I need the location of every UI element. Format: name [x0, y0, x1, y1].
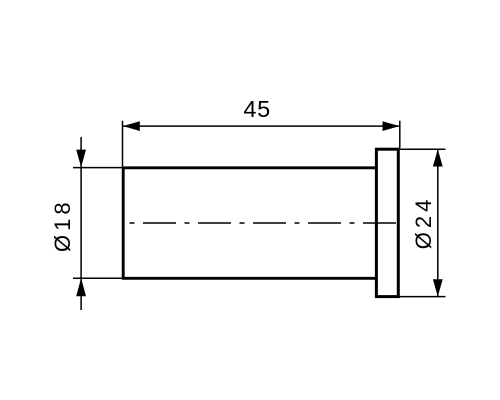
extension line O18 top [73, 167, 123, 169]
extension line 45 left [122, 121, 124, 167]
dimension line 45 [123, 125, 400, 127]
arrowhead O18 top (points down) [76, 150, 86, 168]
flange outline [376, 149, 398, 296]
extension line 45 right [399, 121, 401, 148]
centerline [130, 222, 399, 224]
extension line O24 bottom [399, 296, 446, 298]
extension line O18 bottom [73, 277, 123, 279]
arrowhead 45 left [123, 121, 140, 131]
arrowhead O24 top (points up) [433, 149, 443, 166]
dimension line O18 [80, 137, 82, 310]
svg-text:Ø18: Ø18 [50, 198, 75, 252]
body outline (pin shaft) [123, 168, 377, 278]
svg-text:45: 45 [243, 96, 271, 122]
svg-text:Ø24: Ø24 [411, 196, 436, 250]
extension line O24 top [399, 148, 446, 150]
arrowhead O24 bottom (points down) [433, 279, 443, 296]
arrowhead 45 right [383, 121, 400, 131]
arrowhead O18 bottom (points up) [76, 278, 86, 296]
dimension line O24 [437, 149, 439, 296]
